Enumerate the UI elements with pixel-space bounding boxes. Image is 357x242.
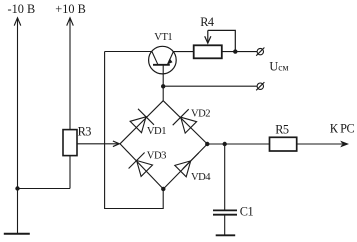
svg-text:VD4: VD4 xyxy=(191,172,211,183)
node R4 wiper junction xyxy=(233,49,237,53)
wire VT1 left lead xyxy=(105,51,152,53)
wire VT1 right lead to R4 xyxy=(173,51,193,53)
svg-text:К РС: К РС xyxy=(330,121,355,135)
terminal Ucm upper xyxy=(256,48,264,56)
svg-text:R4: R4 xyxy=(200,15,214,29)
wire R5 to output arrow К РС xyxy=(297,143,342,145)
node bridge right junction xyxy=(205,142,209,146)
node junction on -10V rail xyxy=(15,186,19,190)
wire R3 bottom lead xyxy=(69,156,71,189)
svg-text:VD2: VD2 xyxy=(191,108,210,119)
svg-text:R5: R5 xyxy=(275,122,289,136)
svg-text:+10 В: +10 В xyxy=(55,2,86,16)
net +10V supply arrow xyxy=(67,18,74,130)
wire R4 right lead to terminal xyxy=(222,51,257,53)
svg-text:VD1: VD1 xyxy=(147,126,166,137)
ground (right, at C1) xyxy=(216,234,236,236)
diode VD4 xyxy=(175,153,199,177)
capacitor C1 xyxy=(213,210,237,214)
node base junction xyxy=(161,84,165,88)
bridge arm wires (diamond) xyxy=(120,101,207,189)
svg-text:VD3: VD3 xyxy=(147,150,166,161)
diode VD3 xyxy=(129,153,153,177)
terminal Ucm lower xyxy=(256,82,264,90)
wire base node to bridge top xyxy=(162,86,164,100)
R4 wiper arrow and loop to right terminal xyxy=(205,30,236,51)
svg-text:C1: C1 xyxy=(240,205,254,219)
wire left branch vertical (VT1 collector to bridge bottom) xyxy=(105,52,164,209)
svg-text:R3: R3 xyxy=(78,124,92,138)
ground (left) xyxy=(4,233,30,235)
net -10V supply arrow xyxy=(14,18,21,234)
wire R3 wiper to bridge left node (with arrow) xyxy=(77,141,119,147)
wire C1 bottom lead xyxy=(224,215,226,236)
wire C1 top lead xyxy=(224,144,226,210)
diode VD1 xyxy=(130,109,154,133)
svg-text:-10 В: -10 В xyxy=(8,2,36,16)
node C1 junction xyxy=(223,142,227,146)
resistor R5 xyxy=(270,137,297,151)
node bridge bottom junction xyxy=(161,187,165,191)
resistor R3 (potentiometer body) xyxy=(63,130,77,156)
transistor VT1 xyxy=(149,46,177,86)
diode VD2 xyxy=(173,109,197,133)
wire bottom of R3 to -10V rail xyxy=(18,188,71,190)
resistor R4 (potentiometer body) xyxy=(194,45,222,58)
wire bridge right node to R5 xyxy=(207,143,269,145)
wire base node to lower terminal xyxy=(163,85,257,87)
svg-text:VT1: VT1 xyxy=(154,32,172,43)
